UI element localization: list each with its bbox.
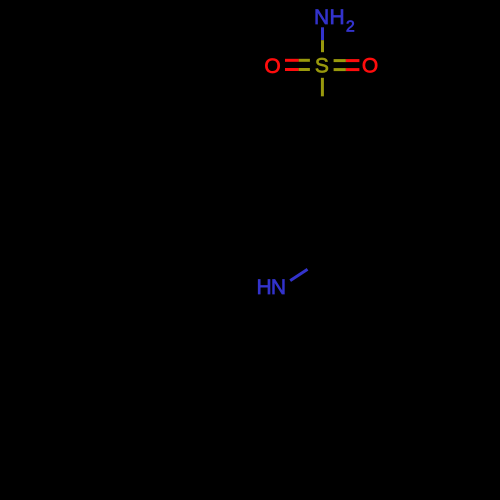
svg-text:H: H bbox=[257, 276, 272, 299]
bond N-CH2 (carbon half, black) bbox=[308, 258, 325, 269]
bond N-C(ring) downward (black, invisible) bbox=[277, 298, 280, 340]
amide nitrogen label NH2 bbox=[314, 6, 355, 36]
secondary amine label HN bbox=[257, 276, 286, 299]
bond C(aryl)-CH2 (black) bbox=[322, 219, 325, 258]
benzene ring (black carbon skeleton, invisible on bg) bbox=[277, 115, 367, 219]
double bond S=O left upper line bbox=[285, 59, 310, 62]
bond N-S (blue half) bbox=[321, 27, 324, 40]
svg-text:N: N bbox=[314, 6, 329, 29]
bond N-CH2 (blue half) bbox=[290, 269, 307, 280]
double bond S=O left lower line bbox=[285, 68, 310, 71]
svg-text:H: H bbox=[330, 6, 345, 29]
svg-text:O: O bbox=[362, 55, 378, 78]
svg-text:O: O bbox=[264, 55, 280, 78]
svg-text:S: S bbox=[315, 55, 329, 78]
bond S-C(aryl) carbon half (black, invisible on bg) bbox=[321, 96, 324, 115]
svg-text:2: 2 bbox=[346, 19, 355, 36]
svg-text:N: N bbox=[271, 276, 286, 299]
double bond S=O right lower line bbox=[334, 68, 360, 71]
double bond S=O right upper line bbox=[334, 59, 360, 62]
bond N-S (sulfur half) bbox=[321, 40, 324, 52]
bond S-C(aryl) sulfur half bbox=[321, 78, 324, 97]
